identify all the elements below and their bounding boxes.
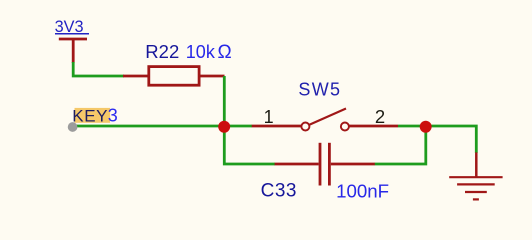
power symbol 3V3	[59, 39, 87, 63]
resistor R22	[123, 67, 225, 86]
svg-text:R22: R22	[145, 41, 179, 62]
svg-text:KEY: KEY	[72, 106, 108, 125]
wire KEY3 to node A	[75, 125, 224, 128]
wire R22 to node A	[223, 76, 226, 126]
wire node A to C33	[224, 126, 275, 164]
junction node B	[420, 121, 432, 133]
junction node A	[218, 121, 230, 133]
net label KEY3	[72, 105, 118, 125]
pin KEY3	[68, 122, 78, 132]
ground	[449, 152, 502, 199]
wire 3V3 to R22	[73, 62, 124, 76]
svg-text:10k: 10k	[186, 42, 216, 62]
wire node B to ground	[425, 126, 476, 153]
wire C33 to node B	[375, 126, 426, 164]
wire node A to SW5 pin 1	[224, 125, 252, 128]
svg-text:SW5: SW5	[298, 80, 341, 100]
svg-text:100nF: 100nF	[336, 181, 389, 202]
net label 3V3	[55, 18, 89, 36]
wire SW5 pin 2 to node B	[398, 125, 426, 128]
value 10kΩ	[186, 42, 232, 63]
capacitor C33	[275, 143, 375, 186]
svg-text:Ω: Ω	[218, 42, 232, 63]
svg-text:3: 3	[108, 105, 118, 125]
svg-text:1: 1	[264, 107, 274, 127]
svg-text:C33: C33	[261, 181, 297, 202]
svg-text:2: 2	[375, 106, 385, 127]
switch SW5	[252, 109, 398, 131]
